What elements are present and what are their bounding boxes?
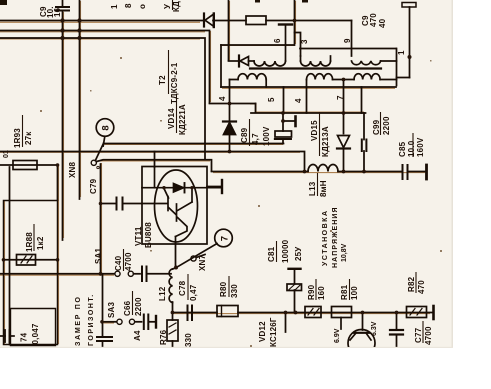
svg-text:16: 16 [53, 7, 62, 17]
svg-text:0,47: 0,47 [189, 284, 198, 301]
svg-text:0,047: 0,047 [31, 323, 40, 344]
wire: VT11 collector stem [154, 152, 156, 168]
wire: R76 stems [172, 313, 174, 321]
capacitor below SA3 drop [97, 336, 112, 338]
svg-text:8: 8 [100, 125, 111, 130]
wire: C89 stems [282, 113, 284, 131]
svg-text:100V: 100V [262, 126, 271, 146]
capacitor C40 [141, 267, 143, 282]
svg-text:5: 5 [267, 97, 276, 102]
capacitor C99 [361, 140, 363, 152]
svg-text:1: 1 [110, 4, 119, 9]
svg-text:4,7: 4,7 [251, 133, 260, 145]
inner box C74 [11, 309, 56, 346]
wire: winding C top lead pin 9 [351, 21, 353, 57]
svg-text:С78: С78 [178, 280, 187, 296]
svg-text:ХN8: ХN8 [68, 161, 77, 178]
svg-text:С66: С66 [123, 300, 132, 316]
svg-text:10.0: 10.0 [407, 140, 416, 157]
terminal right of C85 [425, 165, 428, 179]
svg-text:9: 9 [343, 38, 352, 43]
wire: T2 bottom bus y=87 [221, 86, 396, 88]
svg-text:R82: R82 [407, 276, 416, 292]
diode VD13 [203, 14, 205, 27]
contact XN8/C79 [95, 144, 103, 161]
capacitor C89 [275, 131, 292, 137]
svg-text:У: У [163, 3, 172, 9]
svg-text:1R88: 1R88 [25, 232, 34, 252]
svg-text:8мН: 8мН [319, 180, 328, 197]
wire: emitter node to L12 [173, 268, 177, 270]
VT11 internal diode [174, 184, 184, 193]
capacitor C77 [390, 329, 403, 331]
wire: vertical x=283 bus to H2 [283, 87, 285, 113]
svg-text:2200: 2200 [382, 116, 391, 135]
VT11 oval [155, 170, 198, 242]
svg-text:VD12: VD12 [258, 321, 267, 342]
terminal bar near C89 [294, 117, 297, 127]
svg-text:8: 8 [124, 3, 133, 8]
resistor R82 [407, 307, 427, 318]
wire: vertical x=79 [79, 0, 81, 199]
resistor R90 [305, 307, 321, 318]
wire: C77 stems [396, 313, 398, 330]
wire: T2 top frame [221, 44, 294, 46]
T2 core [250, 67, 381, 69]
transformer T2 winding E [307, 74, 333, 80]
svg-text:160: 160 [317, 286, 326, 300]
svg-text:R90: R90 [307, 284, 316, 300]
svg-text:С85: С85 [398, 141, 407, 157]
svg-text:25У: 25У [294, 246, 303, 261]
wire: winding B top lead [295, 33, 301, 57]
transformer T2 winding F [354, 74, 380, 80]
svg-text:10000: 10000 [281, 239, 290, 263]
capacitor C85 [402, 165, 404, 179]
svg-text:470: 470 [417, 280, 426, 294]
wire: vertical x=294 from top to T2 [294, 0, 296, 45]
svg-text:6.3V: 6.3V [371, 321, 378, 336]
wire: transistor base stem [362, 313, 364, 331]
wire: R93 lead y=165 [0, 164, 58, 166]
resistor R76 [167, 320, 178, 341]
wire: L2 y=151 long bus [0, 152, 305, 171]
svg-text:01: 01 [3, 150, 10, 158]
wire: SA3 bus y=321.8 [103, 321, 117, 323]
svg-text:4: 4 [294, 98, 303, 103]
svg-text:R80: R80 [219, 281, 228, 297]
svg-text:10,8V: 10,8V [341, 243, 348, 262]
svg-text:БU808: БU808 [144, 222, 153, 248]
wire: base line y=203 into VT11 [101, 203, 117, 205]
svg-text:КС126Г: КС126Г [269, 317, 278, 347]
diode in T2 primary [238, 56, 240, 67]
wire: H1 y=103 from x=209 [210, 103, 256, 105]
wire: vertical x=343 pin7 to H2 [343, 80, 345, 114]
resistor R (120) on bus A [246, 16, 266, 25]
circle node 7 [215, 229, 233, 247]
svg-text:1: 1 [397, 50, 406, 55]
svg-text:74: 74 [20, 332, 29, 342]
svg-text:ГОРИЗОНТ.: ГОРИЗОНТ. [88, 293, 95, 346]
wire: C99 stems [363, 113, 365, 140]
capacitor C95 [56, 6, 69, 8]
wire: VD14 vertical [230, 79, 239, 81]
wire: L12 to rail [172, 302, 174, 313]
VT11 block outline [142, 167, 207, 245]
svg-text:КД213А: КД213А [321, 126, 330, 157]
wire: L1 y=143 circle8 line [104, 143, 284, 145]
wire: vertical x=62 from cap C95 [62, 11, 64, 240]
svg-text:КД: КД [172, 1, 181, 12]
svg-text:УСТАНОВКА: УСТАНОВКА [322, 209, 329, 266]
wire: L3 y=159.5 from contact C79 [96, 160, 211, 171]
wire: R81 stem down [340, 318, 342, 330]
svg-text:4700: 4700 [124, 252, 133, 271]
wire: top bus B y=30 bends down at x=209 [0, 31, 210, 104]
svg-text:КД221А: КД221А [178, 104, 187, 135]
svg-text:VT11: VT11 [134, 226, 143, 246]
svg-text:VD15: VD15 [310, 120, 319, 141]
resistor R81 [332, 307, 352, 318]
terminal bar after C66 [155, 316, 157, 328]
wire: emitter stem [175, 244, 177, 268]
svg-text:ЗАМЕР ПО: ЗАМЕР ПО [75, 295, 82, 346]
svg-text:2200: 2200 [134, 297, 143, 316]
inductor L12 [169, 269, 172, 303]
wire: C79 vertical x=100 down to SA1 [100, 164, 102, 274]
svg-text:40: 40 [378, 18, 387, 28]
wire: H2 y=113 [251, 112, 366, 114]
wire: C81 stem [294, 290, 296, 313]
wire: top bus C y=37.5 bends down at x=205.5 [0, 38, 205, 159]
svg-text:ТДКС9-2-1: ТДКС9-2-1 [170, 62, 179, 104]
svg-text:6: 6 [273, 38, 282, 43]
svg-text:о: о [138, 4, 147, 9]
wire: jog to H2 [255, 104, 257, 113]
capacitor C66 [143, 315, 145, 330]
capacitor C74 [4, 330, 6, 342]
svg-text:L12: L12 [158, 286, 167, 301]
wire: VD15 vertical [343, 113, 345, 134]
inductor L13 [308, 165, 338, 172]
svg-text:ХN7: ХN7 [198, 254, 207, 271]
svg-text:А4: А4 [133, 330, 142, 341]
wire: C89 to bar terminal [283, 120, 295, 122]
svg-text:С77: С77 [414, 327, 423, 343]
wire: SA1 bus y=273.5 [0, 273, 115, 275]
VT11 right bar terminal [221, 180, 223, 193]
svg-text:100: 100 [350, 286, 359, 300]
svg-text:L13: L13 [308, 181, 317, 196]
svg-text:7: 7 [219, 236, 230, 241]
svg-text:SА1: SА1 [94, 247, 103, 264]
transformer T2 winding A [254, 61, 286, 66]
block box left [4, 201, 58, 345]
diode VD15 [338, 136, 350, 148]
wire: pin1 top line y=48 [300, 48, 396, 50]
circle node 8 [96, 119, 114, 137]
svg-text:1к2: 1к2 [36, 236, 45, 250]
capacitor C96 top right [402, 3, 416, 8]
svg-text:330: 330 [184, 333, 193, 347]
corner blob [0, 0, 7, 5]
svg-text:6.9V: 6.9V [334, 328, 341, 343]
capacitor (to T2 pin6) [279, 23, 292, 25]
svg-text:С81: С81 [267, 246, 276, 262]
wire: x=57 vertical to box [57, 165, 59, 200]
capacitor C81 [289, 268, 301, 270]
resistor R93 [13, 161, 37, 170]
wire: SA3 drop x=102 continues to C-to-ground [101, 274, 103, 337]
wire: main lower rail y=312 [173, 312, 218, 314]
switch SA1 contacts [115, 271, 120, 276]
VT11 internals [154, 167, 156, 188]
fraction bars (rotated label underlines) [23, 0, 424, 343]
svg-text:27к: 27к [24, 131, 33, 145]
svg-text:SА3: SА3 [107, 301, 116, 318]
wire: VT11 right terminal [207, 186, 221, 188]
capacitor C78 [187, 306, 189, 321]
svg-text:4: 4 [218, 96, 227, 101]
wire: top bus A y=20 [0, 20, 203, 22]
svg-text:1R93: 1R93 [13, 128, 22, 148]
scan specks [40, 57, 442, 347]
resistor R88 [17, 255, 36, 266]
svg-text:160V: 160V [416, 137, 425, 157]
transformer T2 winding C [352, 61, 381, 65]
wire: vertical x=307 winding to H2 [306, 80, 308, 114]
svg-text:С89: С89 [240, 127, 249, 143]
terminal right end of rail [432, 306, 435, 319]
contact XN7 [191, 256, 196, 261]
resistor R80 [217, 306, 238, 317]
brown scan shadows [0, 1, 430, 344]
transformer T2 winding D [238, 74, 266, 80]
wire: C95 top stem [62, 0, 64, 6]
svg-text:Т2: Т2 [158, 75, 167, 85]
capacitor C79 [116, 198, 118, 210]
svg-text:R76: R76 [159, 329, 168, 345]
svg-text:330: 330 [230, 284, 239, 298]
svg-text:С40: С40 [114, 255, 123, 271]
svg-text:470: 470 [369, 13, 378, 27]
labels (rotated) [3, 0, 433, 347]
transistor VT bottom [348, 330, 375, 357]
svg-text:С99: С99 [372, 119, 381, 135]
svg-text:НАПРЯЖЕНИЯ: НАПРЯЖЕНИЯ [332, 206, 339, 268]
svg-text:7: 7 [336, 95, 345, 100]
transformer T2 winding B [301, 61, 331, 66]
svg-text:4700: 4700 [424, 326, 433, 345]
wire: vertical x=361 to H2 [361, 87, 363, 113]
wire: R88 lead y=259.5 [4, 259, 58, 261]
svg-text:R81: R81 [340, 284, 349, 300]
switch SA3 contacts [117, 319, 122, 324]
wire: VD12 stub [285, 313, 287, 333]
svg-text:3: 3 [300, 39, 309, 44]
svg-text:VD14: VD14 [167, 108, 176, 129]
wire: L13 rail y=171 to output [212, 171, 309, 173]
top edge cut glyph marks [255, 0, 260, 3]
diode VD14 [223, 120, 236, 122]
svg-text:С79: С79 [89, 178, 98, 194]
wire: right verticals of T2 [396, 49, 398, 86]
wire: left module edge x=9.5 [9, 167, 11, 345]
wire: vertical x=228 to damper diode of T2 [228, 0, 230, 61]
